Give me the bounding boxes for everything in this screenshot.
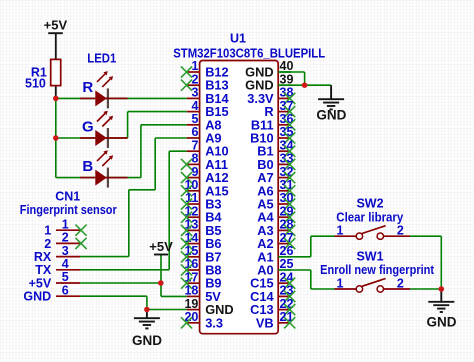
U1 pin 31 (A6) (278, 190, 291, 192)
U1 pin 32 no-connect (284, 172, 295, 183)
U1 pin 39 (GND) (278, 84, 291, 86)
U1 pin 9 no-connect (181, 172, 192, 183)
U1 pin 22 no-connect (284, 304, 295, 315)
U1 pin 35 no-connect (284, 132, 295, 143)
U1 pin 15 no-connect (181, 251, 192, 262)
U1 pin 33 (B0) (278, 163, 291, 165)
U1 pin 20 no-connect (181, 317, 192, 328)
svg-text:GND: GND (316, 108, 346, 123)
CN1 pin 3 (RX) (56, 256, 80, 258)
wire SW2 pin1 row (311, 235, 335, 237)
U1 pin 13 no-connect (181, 225, 192, 236)
U1 pin 11 no-connect (181, 198, 192, 209)
junction SW1 GND (439, 286, 445, 292)
CN1 pin 2 no-connect (75, 238, 86, 249)
wire RX net jog horizontal (129, 189, 155, 191)
U1 pin 11 (B3) (187, 203, 200, 205)
svg-text:GND: GND (427, 315, 457, 330)
svg-text:SW1: SW1 (356, 249, 383, 263)
svg-text:B: B (82, 158, 93, 175)
CN1 pin 1 no-connect (75, 225, 86, 236)
svg-text:+5V: +5V (149, 239, 173, 254)
svg-text:1: 1 (191, 59, 198, 73)
U1 pin 6 (A9) (187, 137, 200, 139)
svg-text:GND: GND (23, 290, 51, 304)
U1 pin 21 (VB) (278, 322, 291, 324)
U1 pin 29 no-connect (284, 212, 295, 223)
ground GND top right (330, 85, 332, 99)
svg-text:39: 39 (280, 72, 294, 86)
U1 pin 8 (A11) (187, 163, 200, 165)
svg-text:510: 510 (25, 76, 46, 90)
svg-text:18: 18 (184, 284, 198, 298)
svg-text:4: 4 (62, 257, 69, 271)
U1 pin 4 (B15) (187, 111, 200, 113)
svg-text:3: 3 (62, 244, 69, 258)
wire TX net vertical (168, 151, 170, 270)
wire +5V CN1 row (80, 282, 161, 284)
wire pin4 row B15 (128, 111, 187, 113)
svg-text:19: 19 (184, 297, 198, 311)
wire G LED to pin4 jog vertical (127, 112, 129, 138)
svg-text:5: 5 (191, 112, 198, 126)
U1 pin 13 (B5) (187, 229, 200, 231)
U1 pin 31 no-connect (284, 185, 295, 196)
U1 pin 24 (C15) (278, 282, 291, 284)
U1 pin 34 no-connect (284, 146, 295, 157)
wire SW1 pin2 to GND (410, 288, 441, 290)
wire RX row to CN1 pin3 (80, 256, 129, 258)
U1 pin 21 no-connect (284, 317, 295, 328)
U1 pin 10 (A15) (187, 190, 200, 192)
svg-text:6: 6 (191, 125, 198, 139)
junction R1/LED R anode (53, 96, 59, 102)
wire LED anode bus vertical (55, 98, 57, 177)
wire A0 to SW1 vertical (310, 270, 312, 289)
U1 pin 29 (A4) (278, 216, 291, 218)
U1 pin 26 (A1) (278, 256, 291, 258)
U1 pin 12 no-connect (181, 212, 192, 223)
wire pin18 row 5V (161, 295, 187, 297)
wire pin19 row GND (147, 309, 187, 311)
wire CN1 GND vertical (146, 296, 148, 309)
wire pin6 row A9 (155, 137, 187, 139)
junction LED G anode (53, 135, 59, 141)
svg-text:R: R (82, 79, 93, 96)
wire SW2 pin2 to GND vertical (410, 235, 441, 237)
svg-text:9: 9 (191, 165, 198, 179)
svg-text:1: 1 (337, 224, 344, 238)
wire B LED to pin5 jog vertical (140, 125, 142, 178)
svg-text:2: 2 (44, 237, 51, 251)
U1 pin 14 (B6) (187, 243, 200, 245)
svg-text:25: 25 (280, 257, 294, 271)
U1 pin 2 no-connect (181, 80, 192, 91)
U1 pin 17 (B9) (187, 282, 200, 284)
svg-text:1: 1 (44, 224, 51, 238)
svg-text:Fingerprint sensor: Fingerprint sensor (20, 203, 117, 217)
U1 pin 28 no-connect (284, 225, 295, 236)
svg-text:26: 26 (280, 244, 294, 258)
U1 pin 25 (A0) (278, 269, 291, 271)
U1 pin 16 no-connect (181, 264, 192, 275)
wire CN1 GND row (80, 295, 147, 297)
svg-text:Enroll new fingerprint: Enroll new fingerprint (320, 263, 435, 277)
junction +5V CN1 (158, 280, 164, 286)
LED1 R diode (80, 97, 95, 99)
wire pin40 GND row (280, 71, 305, 73)
U1 pin 3 (B14) (187, 97, 200, 99)
wire SW1 pin1 row (311, 288, 335, 290)
U1 pin 37 no-connect (284, 106, 295, 117)
wire +5V flag stem (160, 255, 162, 284)
CN1 pin 2 (2) (56, 242, 80, 244)
svg-text:1: 1 (337, 276, 344, 290)
svg-text:VB: VB (256, 315, 274, 330)
junction GND pins 40/39 (302, 82, 308, 88)
wire pin40-pin39 vertical (304, 72, 306, 85)
ground GND below CN1 (146, 310, 148, 319)
svg-text:5: 5 (62, 270, 69, 284)
power flag +5V at CN1 (154, 254, 168, 256)
U1 pin 38 no-connect (284, 93, 295, 104)
resistor R1 bottom lead (55, 86, 57, 99)
CN1 pin 5 (+5V) (56, 282, 80, 284)
wire pin39 GND row (280, 84, 331, 86)
U1 pin 9 (A12) (187, 177, 200, 179)
U1 pin 8 no-connect (181, 159, 192, 170)
U1 pin 30 no-connect (284, 198, 295, 209)
wire +5V net: R1 bottom to LED anode bus with junctions (56, 97, 187, 99)
U1 pin 18 (5V) (187, 295, 200, 297)
svg-text:8: 8 (191, 152, 198, 166)
svg-text:G: G (82, 119, 94, 136)
op IC U1 STM32F103C8T6 BluePill body (200, 61, 279, 334)
CN1 pin 6 (GND) (56, 295, 80, 297)
U1 pin 27 (A2) (278, 243, 291, 245)
CN1 pin 4 (TX) (56, 269, 80, 271)
wire RX net vertical lower (128, 190, 130, 257)
resistor R1 510 (51, 59, 61, 85)
U1 pin 24 no-connect (284, 278, 295, 289)
wire pin25 A0 row (291, 269, 311, 271)
U1 pin 35 (B10) (278, 137, 291, 139)
svg-text:2: 2 (397, 276, 404, 290)
U1 pin 22 (C13) (278, 309, 291, 311)
U1 pin 20 (3.3) (187, 322, 200, 324)
LED1 G diode (80, 137, 95, 139)
LED1 B diode (80, 177, 95, 179)
switch SW2 (335, 235, 357, 237)
U1 pin 14 no-connect (181, 238, 192, 249)
svg-text:7: 7 (191, 138, 198, 152)
wire pin5 row A8 (141, 124, 187, 126)
U1 pin 19 (GND) (187, 309, 200, 311)
svg-text:CN1: CN1 (55, 189, 80, 203)
U1 pin 36 (B11) (278, 124, 291, 126)
U1 pin 12 (B4) (187, 216, 200, 218)
U1 pin 23 (C14) (278, 295, 291, 297)
U1 pin 38 (3.3V) (278, 97, 291, 99)
U1 pin 33 no-connect (284, 159, 295, 170)
svg-text:TX: TX (35, 263, 52, 277)
power flag +5V top (48, 32, 63, 34)
svg-text:40: 40 (280, 59, 294, 73)
svg-text:2: 2 (62, 231, 69, 245)
svg-text:3: 3 (191, 86, 198, 100)
svg-text:4: 4 (191, 99, 198, 113)
svg-text:+5V: +5V (29, 276, 52, 290)
wire +5V jog down to pin18 (160, 283, 162, 296)
svg-text:U1: U1 (230, 32, 246, 46)
wire pin26 A1 row (291, 256, 311, 258)
svg-text:SW2: SW2 (356, 197, 383, 211)
U1 pin 1 no-connect (181, 66, 192, 77)
U1 pin 17 no-connect (181, 278, 192, 289)
wire pin7 row A10 (169, 150, 187, 152)
junction GND CN1 (144, 307, 150, 313)
U1 pin 28 (A3) (278, 229, 291, 231)
U1 pin 1 (B12) (187, 71, 200, 73)
svg-text:2: 2 (191, 72, 198, 86)
U1 pin 5 (A8) (187, 124, 200, 126)
U1 pin 2 (B13) (187, 84, 200, 86)
svg-text:Clear library: Clear library (336, 210, 403, 224)
svg-text:RX: RX (34, 250, 52, 264)
svg-text:LED1: LED1 (87, 52, 116, 66)
U1 pin 10 no-connect (181, 185, 192, 196)
U1 pin 27 no-connect (284, 238, 295, 249)
ground GND bottom right at SW1 (440, 289, 442, 302)
U1 pin 32 (A7) (278, 177, 291, 179)
switch SW1 (335, 288, 357, 290)
U1 pin 7 (A10) (187, 150, 200, 152)
wire G LED row (56, 137, 128, 139)
svg-text:6: 6 (62, 283, 69, 297)
U1 pin 16 (B8) (187, 269, 200, 271)
CN1 pin 1 (1) (56, 229, 80, 231)
svg-text:3.3: 3.3 (205, 315, 223, 330)
wire A1 to SW2 vertical (310, 236, 312, 257)
svg-text:GND: GND (132, 333, 162, 348)
wire TX row to CN1 pin4 (80, 269, 169, 271)
wire RX net vertical upper (154, 138, 156, 190)
U1 pin 34 (B1) (278, 150, 291, 152)
wire B LED row (56, 177, 141, 179)
svg-text:2: 2 (397, 224, 404, 238)
U1 pin 40 (GND) (278, 71, 291, 73)
svg-text:1: 1 (62, 217, 69, 231)
U1 pin 30 (A5) (278, 203, 291, 205)
U1 pin 15 (B7) (187, 256, 200, 258)
U1 pin 37 (R) (278, 111, 291, 113)
U1 pin 36 no-connect (284, 119, 295, 130)
U1 pin 23 no-connect (284, 291, 295, 302)
svg-text:+5V: +5V (44, 17, 68, 32)
